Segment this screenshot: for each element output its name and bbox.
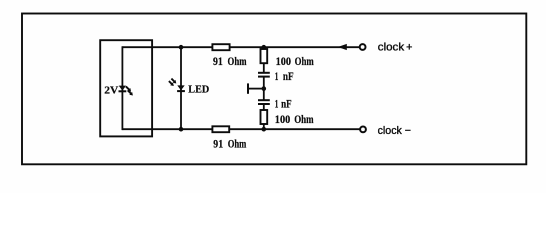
svg-text:clock −: clock − <box>378 125 411 137</box>
svg-text:1nF: 1nF <box>275 98 292 110</box>
wire: branch middle segment <box>263 77 265 100</box>
capacitor C2 (1 nF, bottom) <box>258 100 270 104</box>
wire: branch lower segment <box>263 105 265 130</box>
terminal bar (center tap) <box>247 83 249 93</box>
svg-text:100Ohm: 100Ohm <box>275 114 314 126</box>
svg-text:clock+: clock+ <box>378 42 413 54</box>
svg-text:91Ohm: 91Ohm <box>213 56 247 68</box>
svg-text:2V: 2V <box>104 85 119 96</box>
svg-text:91Ohm: 91Ohm <box>213 139 246 151</box>
wire: LED vertical branch <box>180 47 182 129</box>
component box (optical module) <box>100 40 152 136</box>
terminal: clock - (open circle) <box>360 126 366 132</box>
junction: LED bottom <box>179 127 184 132</box>
svg-text:1nF: 1nF <box>275 71 294 83</box>
wire: bottom rail <box>122 128 360 130</box>
junction: stub node <box>262 86 267 91</box>
svg-text:100Ohm: 100Ohm <box>276 56 314 68</box>
wire: center-tap stub <box>248 88 264 90</box>
junction: branch top <box>262 45 267 50</box>
junction: LED top <box>179 45 184 50</box>
wire: branch upper segment <box>263 47 265 72</box>
wire: left vertical (2V diode branch) <box>121 46 123 130</box>
svg-text:LED: LED <box>188 85 209 96</box>
diode D1 (2V) <box>119 86 133 96</box>
resistor R2 (91 Ohm, bottom) <box>212 126 229 132</box>
terminal: clock + (open circle) <box>360 44 366 50</box>
junction: branch bottom <box>262 127 267 132</box>
signal-direction arrow on clock+ wire <box>338 44 347 50</box>
capacitor C1 (1 nF, top) <box>258 73 270 77</box>
resistor R1 (91 Ohm, top) <box>212 44 229 50</box>
LED D2 <box>169 79 185 92</box>
wire: top rail <box>122 46 359 48</box>
resistor R4 (100 Ohm, bottom) <box>261 110 268 124</box>
resistor R3 (100 Ohm, top) <box>261 49 268 63</box>
